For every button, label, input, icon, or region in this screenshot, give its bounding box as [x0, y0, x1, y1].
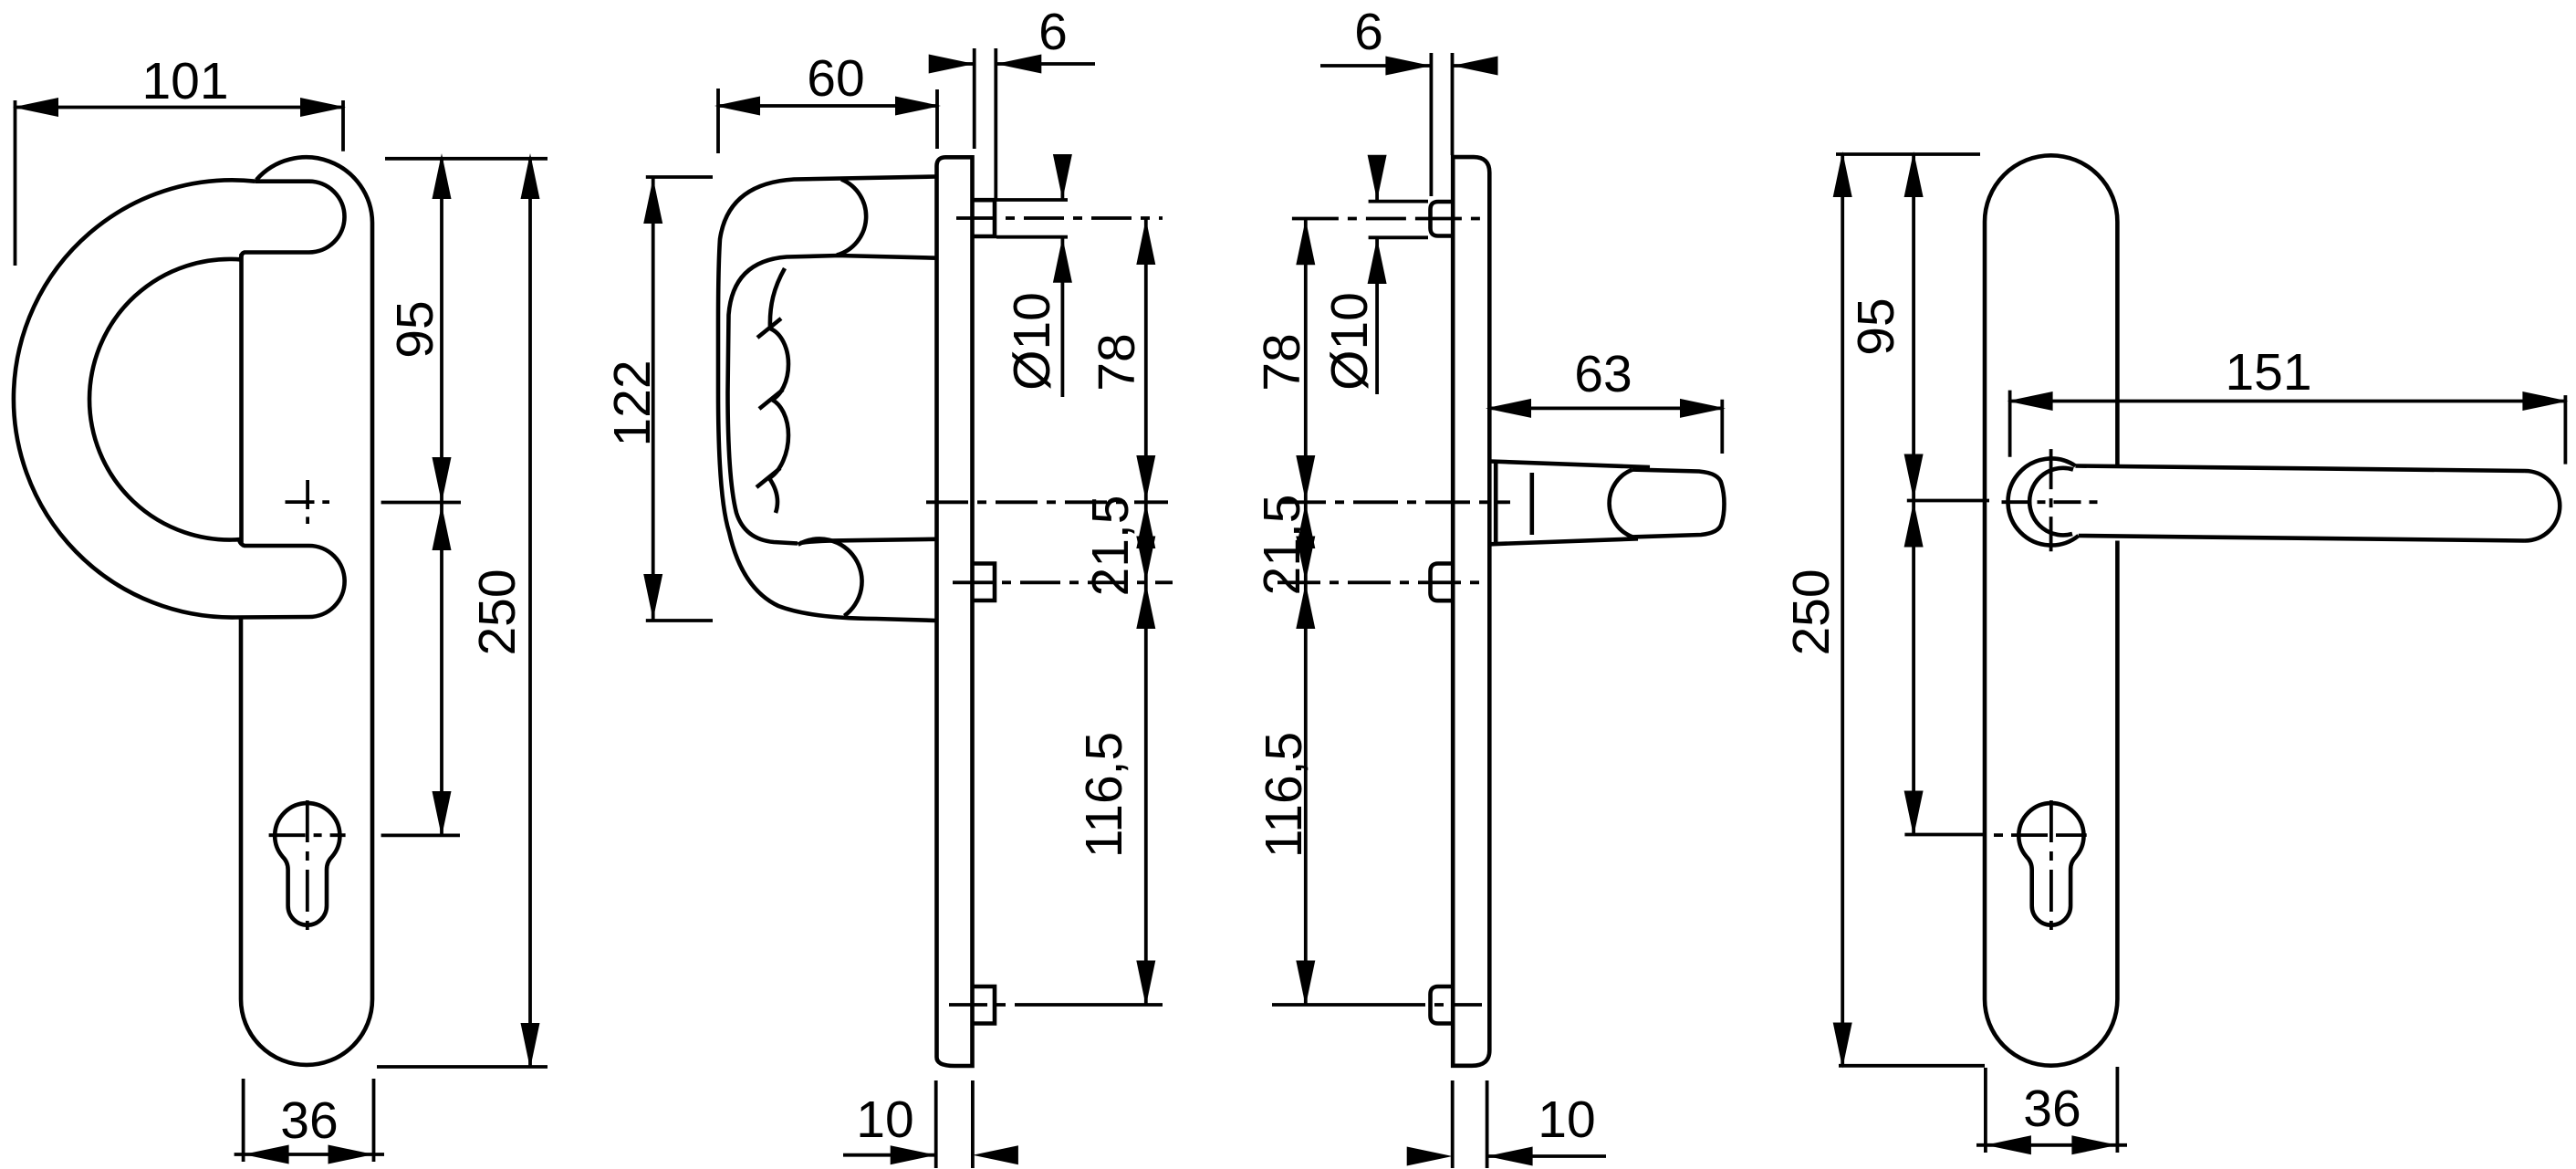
lever bearing base line (view 3) — [1494, 461, 1498, 544]
screw head top (view 3) — [1431, 202, 1454, 236]
dim 78 21,5 116,5 line (view 3) — [1304, 219, 1308, 1006]
dim 95 line (view 4) — [1912, 154, 1915, 835]
dim 250 line (view 4) — [1841, 154, 1844, 1066]
top screw centerline (view 3) — [1292, 217, 1489, 221]
pull handle top stub, inner arc, bottom stub (view 1) — [89, 182, 345, 618]
middle screw centerline (view 3) — [1278, 580, 1489, 584]
svg-text:116,5: 116,5 — [1255, 732, 1313, 858]
dim 36 line (view 4) — [1976, 1143, 2127, 1147]
screw head middle (view 3) — [1431, 564, 1454, 601]
dim 250 line (view 1) — [528, 159, 532, 1067]
top lug centerline (view 2) — [956, 216, 1163, 220]
svg-text:122: 122 — [603, 360, 662, 446]
PZ keyhole (view 1) — [275, 803, 339, 925]
dim 10 extension lines (view 2) — [936, 1080, 973, 1168]
lever bar top edge (view 4) — [2075, 466, 2525, 472]
lever grip outline (view 3) — [1632, 470, 1725, 538]
keyhole tick (view 1) — [381, 834, 460, 838]
dim 122 ticks (view 2) — [646, 177, 713, 621]
svg-text:21,5: 21,5 — [1253, 495, 1311, 596]
arrowheads view 1 — [13, 98, 58, 117]
axis centerline (view 2) — [926, 500, 1168, 504]
PZ keyhole (view 4) — [2018, 803, 2083, 925]
spindle cross mark vertical (view 1) — [306, 480, 309, 524]
screw lug top (view 2) — [973, 200, 996, 236]
svg-text:250: 250 — [468, 569, 527, 655]
grip bottom neck top edge (view 2) — [800, 539, 936, 543]
svg-text:Ø10: Ø10 — [1320, 292, 1379, 391]
dim 151 left terminator (view 4) — [2008, 391, 2012, 457]
dim 151 right extension (view 4) — [2563, 395, 2567, 464]
axis centerline (view 3) — [1281, 500, 1510, 504]
middle lug centerline (view 2) — [953, 580, 1173, 584]
svg-text:10: 10 — [1538, 1091, 1595, 1149]
svg-text:36: 36 — [280, 1091, 338, 1150]
lever neck top edge (view 3) — [1490, 462, 1650, 468]
dim 6 extension lines (view 2) — [975, 48, 996, 200]
groove cusp tick 2 (view 2) — [759, 390, 783, 409]
dim 122 line (view 2) — [652, 177, 655, 621]
groove cusp tick 3 (view 2) — [756, 468, 780, 487]
backplate side profile (view 2) — [937, 157, 973, 1066]
svg-text:Ø10: Ø10 — [1003, 292, 1061, 391]
dim 36 extension lines (view 1) — [244, 1079, 374, 1162]
dim 6 extension lines (view 3) — [1431, 53, 1452, 196]
grip inner contour (view 2) — [728, 256, 937, 544]
axis tick (view 4) — [1907, 499, 1989, 503]
dim 60 extension lines (view 2) — [718, 89, 937, 153]
backplate outline lower (view 4) — [1985, 541, 2117, 1066]
dim 63 extension line (view 3) — [1720, 400, 1724, 454]
dim 63 line (view 3) — [1489, 406, 1723, 410]
top reference line (view 4) — [1836, 152, 1980, 156]
bottom screw centerline (view 3) — [1272, 1003, 1396, 1007]
dim 36 line (view 1) — [235, 1153, 384, 1156]
grip bottom neck cap arc (view 2) — [798, 538, 862, 615]
bottom reference line (view 1) — [377, 1065, 548, 1069]
pull handle grip outer arc (view 1) — [14, 180, 256, 617]
keyhole vertical centerline (view 1) — [306, 800, 309, 932]
backplate left edge through handle opening (view 1) — [239, 254, 244, 545]
screw lug middle (view 2) — [973, 564, 996, 601]
arrowheads view 3 — [1385, 57, 1431, 76]
keyhole horizontal centerline (view 4) — [1994, 833, 2087, 837]
svg-text:21,5: 21,5 — [1081, 496, 1140, 597]
dim 10 tail (view 2) — [843, 1153, 936, 1157]
axis tick (view 1) — [381, 501, 461, 505]
arrowheads view 4 — [1904, 151, 1924, 197]
lever rose outer circle (view 4) — [2008, 458, 2079, 545]
svg-text:60: 60 — [807, 49, 864, 108]
backplate outline upper (view 4) — [1985, 155, 2117, 999]
keyhole horizontal centerline (view 1) — [269, 833, 346, 837]
bottom reference line (view 4) — [1839, 1064, 1985, 1068]
dim 60 line (view 2) — [718, 104, 937, 108]
lever bar bottom edge (view 4) — [2079, 536, 2525, 541]
grip top neck cap arc (view 2) — [837, 180, 866, 256]
lever neck bottom edge (view 3) — [1490, 538, 1638, 544]
svg-text:6: 6 — [1354, 3, 1383, 61]
lever bar right cap (view 4) — [2525, 471, 2560, 541]
svg-text:101: 101 — [141, 52, 228, 110]
svg-text:250: 250 — [1782, 569, 1841, 655]
finger groove wavy line (view 2) — [769, 268, 788, 513]
dim D10 extension lines (view 2) — [996, 200, 1068, 237]
svg-text:6: 6 — [1038, 3, 1068, 61]
spindle cross mark horizontal (view 1) — [286, 500, 330, 504]
svg-text:95: 95 — [1847, 297, 1905, 355]
svg-text:116,5: 116,5 — [1075, 732, 1133, 858]
arrowheads view 2 — [714, 97, 760, 116]
svg-text:151: 151 — [2225, 343, 2311, 402]
svg-text:78: 78 — [1088, 333, 1146, 391]
svg-text:95: 95 — [386, 300, 444, 358]
dim 101 line (view 1) — [16, 106, 344, 110]
dim 78 21,5 116,5 line (view 2) — [1144, 218, 1148, 1005]
svg-text:63: 63 — [1574, 345, 1632, 403]
dim D10 extension lines (view 3) — [1369, 202, 1428, 238]
backplate outline (view 1) — [241, 157, 372, 1065]
screw head bottom (view 3) — [1431, 986, 1454, 1024]
svg-text:36: 36 — [2023, 1080, 2081, 1138]
svg-text:10: 10 — [856, 1091, 913, 1149]
dim 6 line (view 3) — [1320, 64, 1495, 68]
dim 10 extension lines (view 3) — [1453, 1080, 1487, 1168]
axis vertical centerline (view 4) — [2049, 449, 2053, 551]
dim 101 extension lines (view 1) — [16, 100, 344, 266]
backplate side profile (view 3) — [1453, 157, 1489, 1066]
keyhole tick (view 4) — [1904, 833, 1984, 837]
groove cusp tick 1 (view 2) — [757, 318, 781, 338]
dim D10 line (view 2) — [1061, 158, 1065, 397]
dim D10 line (view 3) — [1375, 159, 1379, 394]
svg-text:78: 78 — [1253, 333, 1311, 391]
dim 6 line (view 2) — [931, 62, 1095, 66]
keyhole vertical centerline (view 4) — [2049, 800, 2053, 932]
screw lug bottom (view 2) — [973, 986, 996, 1024]
lever collar line (view 3) — [1530, 473, 1535, 535]
dim 10 tail (view 3) — [1487, 1154, 1606, 1158]
dim 36 extension lines (view 4) — [1986, 1067, 2118, 1153]
dim 151 line (view 4) — [2010, 400, 2566, 403]
axis horizontal centerline (view 4) — [2002, 500, 2104, 504]
lever grip end cap arc (view 3) — [1610, 470, 1632, 538]
dim 95 line (view 1) — [440, 159, 443, 836]
bottom lug centerline (view 2) — [949, 1003, 1031, 1007]
grip outer silhouette (view 2) — [718, 177, 936, 621]
top reference line (view 1) — [385, 157, 548, 161]
lever grip end cap arc (view 4) — [2029, 468, 2073, 536]
